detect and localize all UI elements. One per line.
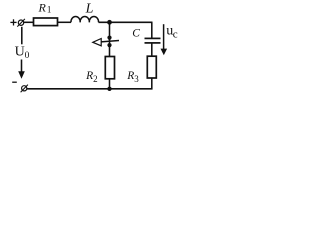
bottom wire	[27, 88, 153, 90]
terminal bottom-left	[21, 85, 28, 93]
wire right branch down to capacitor	[151, 22, 153, 38]
inductor L	[71, 16, 99, 22]
svg-text:1: 1	[47, 5, 52, 15]
label R3	[126, 70, 139, 84]
resistor R2	[105, 57, 114, 79]
svg-text:R: R	[85, 70, 93, 82]
switch contact lower	[107, 43, 111, 47]
svg-text:C: C	[132, 28, 140, 40]
wire below top terminal	[21, 27, 23, 45]
svg-text:L: L	[85, 1, 94, 16]
node junction bottom	[107, 87, 111, 91]
wire R2 to bottom	[109, 79, 111, 89]
minus sign	[12, 81, 17, 83]
label U0	[15, 45, 30, 61]
svg-text:c: c	[173, 28, 178, 40]
resistor R1	[34, 18, 58, 26]
plus sign	[10, 19, 16, 25]
wire capacitor to R3	[151, 43, 153, 56]
switch contact upper	[107, 36, 111, 40]
svg-text:2: 2	[93, 74, 98, 84]
svg-text:R: R	[38, 1, 47, 15]
label uc	[166, 23, 178, 40]
wire R3 to bottom	[151, 78, 153, 90]
svg-text:3: 3	[134, 74, 139, 84]
label R2	[85, 70, 98, 84]
arrow uc (points down)	[161, 24, 168, 55]
label R1	[38, 1, 52, 15]
node junction top	[107, 20, 112, 25]
svg-text:R: R	[126, 70, 134, 82]
wire top-left	[24, 21, 34, 23]
wire middle branch (through switch)	[109, 22, 111, 56]
svg-text:0: 0	[25, 51, 30, 61]
wire L to corner	[99, 21, 153, 23]
arrow U0 (points down)	[18, 60, 25, 79]
resistor R3	[147, 56, 156, 78]
switch blade	[101, 41, 119, 42]
capacitor C	[145, 38, 161, 43]
svg-text:U: U	[15, 45, 25, 60]
wire R1 to L	[58, 21, 72, 23]
switch arrow head	[93, 39, 101, 46]
terminal top-left	[17, 19, 25, 27]
